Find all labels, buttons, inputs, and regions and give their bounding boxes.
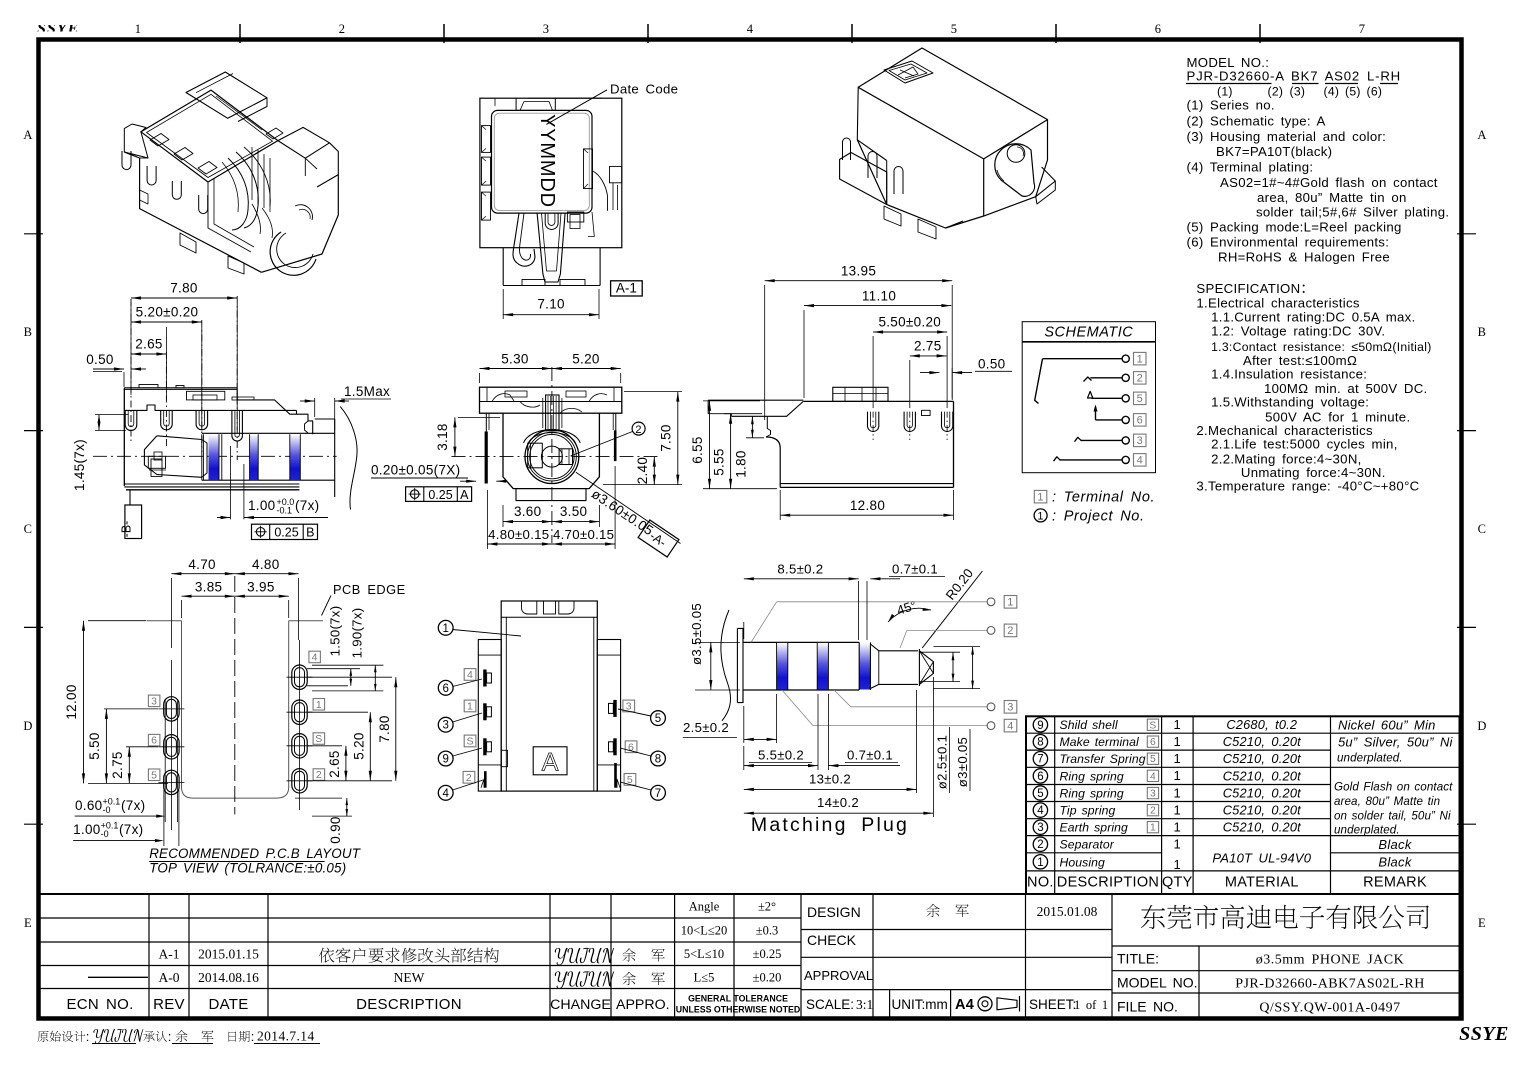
main body front <box>503 413 599 489</box>
svg-text:1.2: Voltage rating:DC 30V.: 1.2: Voltage rating:DC 30V. <box>1211 323 1385 338</box>
svg-text:6: 6 <box>1137 415 1143 427</box>
svg-text:-0: -0 <box>103 805 111 815</box>
svg-text:area, 80u” Matte tin: area, 80u” Matte tin <box>1334 795 1440 808</box>
svg-text:SSYE: SSYE <box>1459 1023 1509 1045</box>
datum B tab <box>125 505 142 539</box>
schematic box <box>1022 322 1155 473</box>
iso view top-right <box>840 48 1056 239</box>
svg-text:Matching Plug: Matching Plug <box>751 814 909 836</box>
svg-text:: Project No.: : Project No. <box>1052 508 1145 524</box>
svg-text:C5210, 0.20t: C5210, 0.20t <box>1223 734 1301 749</box>
title block: revision table <box>39 894 1460 1018</box>
dim 2.65 pcb <box>308 745 342 747</box>
svg-text:2.65: 2.65 <box>327 750 342 777</box>
svg-text:5.5±0.2: 5.5±0.2 <box>758 748 804 763</box>
dimension 2.65 <box>131 353 166 355</box>
svg-text:SCHEMATIC: SCHEMATIC <box>1044 325 1133 341</box>
dim 0.7±0.1 bottom <box>828 765 900 767</box>
svg-text:C: C <box>1478 522 1487 536</box>
company name CJK <box>1141 905 1165 929</box>
iso C base flange left <box>840 153 887 205</box>
left terminals <box>483 670 486 687</box>
frame zone ticks top <box>239 24 241 43</box>
iso C right face with keyhole <box>984 120 1048 216</box>
pin centerlines <box>130 299 132 442</box>
svg-text:area, 80u” Matte tin on: area, 80u” Matte tin on <box>1257 190 1407 205</box>
svg-text:underplated.: underplated. <box>1334 824 1400 837</box>
svg-text:13.95: 13.95 <box>841 264 876 279</box>
title block: design/check/approval <box>801 929 1112 931</box>
svg-text:1: 1 <box>1037 491 1043 503</box>
svg-text:±2°: ±2° <box>758 900 776 914</box>
svg-text:4.70±0.15: 4.70±0.15 <box>553 527 614 542</box>
svg-text:6.55: 6.55 <box>690 436 705 463</box>
svg-text:0.7±0.1: 0.7±0.1 <box>847 748 893 763</box>
svg-text:D: D <box>23 719 32 733</box>
svg-text:6: 6 <box>442 683 448 695</box>
svg-text:5.20±0.20: 5.20±0.20 <box>136 305 199 320</box>
svg-text:SPECIFICATION：: SPECIFICATION： <box>1196 281 1314 296</box>
dim 3.18 <box>458 416 500 418</box>
svg-text:S: S <box>1149 720 1156 731</box>
svg-text:7: 7 <box>1359 22 1366 36</box>
svg-text:Black: Black <box>1378 854 1412 869</box>
svg-text:13±0.2: 13±0.2 <box>809 772 851 787</box>
svg-text:2.75: 2.75 <box>914 339 941 354</box>
svg-text:B: B <box>306 526 314 540</box>
svg-text:4: 4 <box>467 669 473 681</box>
svg-text::: : <box>251 1029 255 1044</box>
dim 7.10 <box>502 289 504 319</box>
svg-text:REMARK: REMARK <box>1363 875 1427 891</box>
svg-text:ø2.5±0.1: ø2.5±0.1 <box>935 735 950 789</box>
dim 3.85/3.95 <box>181 600 183 618</box>
svg-text:3.85: 3.85 <box>195 580 222 595</box>
rear view top terminal stack <box>833 387 888 401</box>
pins (side view) <box>125 410 137 430</box>
svg-text:1.4.Insulation resistance:: 1.4.Insulation resistance: <box>1211 366 1367 381</box>
side pins front view <box>485 413 487 432</box>
dim 0.50 rear <box>951 368 953 400</box>
svg-text:B: B <box>24 325 33 339</box>
svg-text:4: 4 <box>1037 805 1044 817</box>
svg-text:(2): (2) <box>1268 85 1284 99</box>
GDT box 0.25 B <box>252 524 318 539</box>
svg-text:5.20: 5.20 <box>352 732 367 759</box>
svg-text:2: 2 <box>1150 806 1156 817</box>
plug tip <box>918 649 920 686</box>
revision description CJK <box>319 948 335 963</box>
svg-text:C5210, 0.20t: C5210, 0.20t <box>1223 768 1301 783</box>
svg-text:C2680, t0.2: C2680, t0.2 <box>1226 717 1297 732</box>
BOM table <box>1026 716 1460 894</box>
svg-text:underplated.: underplated. <box>1337 752 1403 765</box>
plug terminal circles and squares <box>987 598 995 606</box>
svg-text:4.80±0.15: 4.80±0.15 <box>488 527 549 542</box>
svg-text:1: 1 <box>1174 837 1182 852</box>
svg-text:1: 1 <box>1007 597 1013 609</box>
svg-text:(7x): (7x) <box>121 798 145 813</box>
svg-text:2: 2 <box>466 772 472 784</box>
A-1 label box <box>611 281 643 296</box>
switch contact details <box>148 456 165 468</box>
iso A extra curves <box>252 204 261 234</box>
svg-text:APPROVAL: APPROVAL <box>804 968 873 983</box>
svg-text:2015.01.15: 2015.01.15 <box>198 947 259 962</box>
svg-text:S: S <box>315 733 322 745</box>
iso A top shield plate <box>141 90 278 182</box>
svg-text:C: C <box>24 522 33 536</box>
dim 11.10 <box>803 310 805 398</box>
svg-text:A-0: A-0 <box>159 970 180 985</box>
svg-text:MATERIAL: MATERIAL <box>1225 875 1299 891</box>
svg-text:DESIGN: DESIGN <box>807 904 861 920</box>
svg-text:9: 9 <box>442 754 448 766</box>
svg-text:DATE: DATE <box>208 996 248 1013</box>
svg-text:7.10: 7.10 <box>537 297 564 312</box>
svg-text:0.25: 0.25 <box>428 488 452 502</box>
svg-text:D: D <box>1477 719 1486 733</box>
svg-text:3: 3 <box>151 696 157 708</box>
plug collar <box>737 628 743 642</box>
svg-text:Angle: Angle <box>689 900 720 914</box>
svg-text:Gold Flash on contact: Gold Flash on contact <box>1334 781 1453 794</box>
svg-text:GENERAL TOLERANCE: GENERAL TOLERANCE <box>688 994 788 1004</box>
svg-text:4: 4 <box>442 788 449 800</box>
break line (wavy) <box>340 407 357 510</box>
svg-text:Earth spring: Earth spring <box>1060 821 1129 835</box>
svg-text:S: S <box>466 736 473 748</box>
svg-text:BK7=PA10T(black): BK7=PA10T(black) <box>1216 144 1332 159</box>
iso C left face <box>857 87 886 160</box>
svg-text:14±0.2: 14±0.2 <box>817 795 859 810</box>
svg-text:A: A <box>542 749 559 777</box>
iso A latch bumps along plate lower-left edge <box>150 134 169 147</box>
svg-text:3.60: 3.60 <box>514 504 541 519</box>
svg-text:7: 7 <box>1037 754 1043 766</box>
company block <box>1112 945 1460 947</box>
dim 5.55 <box>724 413 762 415</box>
svg-text:4.70: 4.70 <box>188 557 215 572</box>
svg-text:0.7±0.1: 0.7±0.1 <box>892 562 938 577</box>
schematic legend <box>1034 490 1047 503</box>
svg-text:1: 1 <box>1174 857 1182 872</box>
svg-text:1: 1 <box>316 699 322 711</box>
iso A spring wires <box>228 158 248 230</box>
svg-text:8.5±0.2: 8.5±0.2 <box>777 562 823 577</box>
svg-text:3.50: 3.50 <box>560 504 587 519</box>
svg-text:(7x): (7x) <box>295 498 319 513</box>
plug body <box>743 641 859 643</box>
iso A right body mass <box>304 158 306 176</box>
svg-text:1: 1 <box>1174 751 1182 766</box>
footer original design line <box>37 1031 48 1042</box>
svg-text:1.1.Current rating:DC 0.5A max: 1.1.Current rating:DC 0.5A max. <box>1211 310 1415 325</box>
svg-text:2014.08.16: 2014.08.16 <box>198 970 259 985</box>
dim 2.75 <box>126 746 158 748</box>
svg-text:5.20: 5.20 <box>572 352 599 367</box>
svg-text:(7x): (7x) <box>119 822 143 837</box>
svg-text:PA10T UL-94V0: PA10T UL-94V0 <box>1212 851 1311 866</box>
small u spring <box>545 213 558 229</box>
svg-text:RECOMMENDED P.C.B LAYOUT: RECOMMENDED P.C.B LAYOUT <box>149 846 361 861</box>
dim 14±0.2 <box>932 677 934 817</box>
svg-text:Make terminal: Make terminal <box>1060 735 1140 749</box>
svg-text:Transfer Spring: Transfer Spring <box>1060 752 1146 766</box>
svg-text:3.95: 3.95 <box>247 580 274 595</box>
svg-text:5: 5 <box>1137 393 1143 405</box>
contacts inside barrel <box>528 443 543 468</box>
flange inner details <box>492 394 514 402</box>
rear pins <box>868 412 879 432</box>
svg-text:C5210, 0.20t: C5210, 0.20t <box>1223 803 1301 818</box>
dimension 5.20±0.20 <box>165 327 167 400</box>
svg-text:1.90(7x): 1.90(7x) <box>350 608 365 659</box>
svg-text:-0: -0 <box>101 829 109 839</box>
iso A cage vertical lines <box>251 147 253 200</box>
svg-text:A4: A4 <box>955 997 974 1013</box>
dim 8.5±0.2 <box>743 622 745 639</box>
svg-text::: : <box>168 1029 172 1044</box>
svg-text:0.25: 0.25 <box>274 526 298 540</box>
45 deg chamfer callout <box>922 571 982 648</box>
svg-text:ø3.5mm PHONE JACK: ø3.5mm PHONE JACK <box>1256 953 1404 968</box>
svg-text:1.5.Withstanding voltage:: 1.5.Withstanding voltage: <box>1211 395 1369 410</box>
svg-text:2: 2 <box>1137 373 1143 385</box>
svg-text:4: 4 <box>1007 720 1013 732</box>
svg-text:5.50±0.20: 5.50±0.20 <box>878 315 941 330</box>
svg-text:5: 5 <box>655 713 661 725</box>
svg-text:1: 1 <box>442 623 448 635</box>
iso C pins <box>843 138 851 160</box>
svg-text:1: 1 <box>1174 785 1182 800</box>
svg-text:NO.: NO. <box>1027 875 1054 891</box>
svg-text:9: 9 <box>1037 720 1043 732</box>
svg-text:7.50: 7.50 <box>659 424 674 451</box>
pads left column <box>164 697 179 721</box>
svg-text:2: 2 <box>1037 839 1043 851</box>
svg-text:1.5Max: 1.5Max <box>344 384 390 399</box>
svg-text:1.00: 1.00 <box>73 822 100 837</box>
svg-text:C5210, 0.20t: C5210, 0.20t <box>1223 786 1301 801</box>
frame zone ticks left/right <box>24 233 43 235</box>
svg-text:C5210, 0.20t: C5210, 0.20t <box>1223 820 1301 835</box>
svg-text:1: 1 <box>1150 823 1156 834</box>
svg-text:5: 5 <box>1150 754 1156 765</box>
svg-text:0.90: 0.90 <box>328 816 343 843</box>
svg-text:0.60: 0.60 <box>75 798 102 813</box>
svg-text:NEW: NEW <box>394 970 425 985</box>
svg-text:3: 3 <box>442 720 448 732</box>
svg-text:±0.25: ±0.25 <box>753 947 782 961</box>
dim 4.80 / 4.70 <box>486 490 488 549</box>
svg-text:-0.1: -0.1 <box>277 506 293 516</box>
top tab <box>516 98 555 110</box>
svg-text:7.80: 7.80 <box>377 715 392 742</box>
svg-text::: : <box>86 1029 90 1044</box>
iso C base feet <box>884 206 901 226</box>
svg-text:2: 2 <box>316 769 322 781</box>
svg-text:2.65: 2.65 <box>135 337 162 352</box>
svg-text:ø3±0.05: ø3±0.05 <box>955 737 970 787</box>
svg-text:(6): (6) <box>1367 85 1383 99</box>
svg-text:UNIT:mm: UNIT:mm <box>892 997 948 1012</box>
svg-text:1.3:Contact resistance: ≤50mΩ(: 1.3:Contact resistance: ≤50mΩ(Initial) <box>1211 340 1432 354</box>
dome arcs <box>524 429 581 443</box>
svg-text:5.55: 5.55 <box>712 448 727 475</box>
svg-text:C5210, 0.20t: C5210, 0.20t <box>1223 751 1301 766</box>
svg-text:1: 1 <box>467 701 473 713</box>
svg-text:Black: Black <box>1378 837 1412 852</box>
rear view body <box>803 400 953 402</box>
svg-text:Nickel 60u” Min: Nickel 60u” Min <box>1338 718 1436 733</box>
svg-text:6: 6 <box>1155 22 1162 36</box>
svg-text:Tip spring: Tip spring <box>1060 804 1116 818</box>
iso A rear block <box>186 72 267 118</box>
svg-text:TOP VIEW (TOLRANCE:±0.05): TOP VIEW (TOLRANCE:±0.05) <box>149 861 346 876</box>
svg-text:5: 5 <box>1037 788 1043 800</box>
svg-text:-B-: -B- <box>120 521 134 538</box>
svg-text:5<L≤10: 5<L≤10 <box>684 947 724 961</box>
svg-text:(4): (4) <box>1324 85 1340 99</box>
svg-text:on solder tail, 50u” Ni: on solder tail, 50u” Ni <box>1334 809 1451 822</box>
svg-text:3: 3 <box>1007 702 1013 714</box>
dimension 7.80 <box>130 303 132 395</box>
left bevel tabs <box>482 126 491 153</box>
A marking box <box>533 747 567 775</box>
dim 3.60 / 3.50 <box>502 505 504 527</box>
right compartment details <box>610 166 622 182</box>
iso A right block <box>278 127 330 158</box>
svg-text:3.18: 3.18 <box>435 423 450 450</box>
bottom legs <box>502 248 504 286</box>
schematic terminals <box>1122 355 1129 362</box>
dim 13±0.2 <box>916 690 918 793</box>
dim 12.80 <box>779 490 781 520</box>
svg-text:FILE NO.: FILE NO. <box>1117 999 1178 1015</box>
iso C front face <box>857 140 983 228</box>
dims 1.50 / 1.90 (7x) <box>307 668 360 670</box>
svg-text:YYMMDD: YYMMDD <box>536 114 558 208</box>
iso A base feet <box>180 233 196 253</box>
svg-text:8: 8 <box>1037 737 1043 749</box>
svg-text:4: 4 <box>747 22 754 36</box>
svg-text:5u” Silver, 50u” Ni: 5u” Silver, 50u” Ni <box>1338 735 1454 750</box>
svg-text:A: A <box>460 488 469 502</box>
svg-text:TITLE:: TITLE: <box>1117 951 1159 967</box>
svg-text:1.45(7x): 1.45(7x) <box>72 439 87 491</box>
dim 7.80 pcb <box>308 676 392 678</box>
svg-text:: Terminal No.: : Terminal No. <box>1052 490 1155 506</box>
svg-text:2.1.Life test:5000 cycles min,: 2.1.Life test:5000 cycles min, <box>1211 437 1398 452</box>
svg-text:(6) Environmental requirements: (6) Environmental requirements: <box>1187 235 1390 250</box>
svg-text:11.10: 11.10 <box>862 289 896 304</box>
svg-text:7.80: 7.80 <box>170 281 197 296</box>
svg-text:Q/SSY.QW-001A-0497: Q/SSY.QW-001A-0497 <box>1259 1001 1400 1016</box>
svg-text:5.50: 5.50 <box>87 732 102 759</box>
dim 6.55 <box>703 400 760 402</box>
right terminals <box>613 700 616 717</box>
svg-text:(5) Packing mode:L=Reel packin: (5) Packing mode:L=Reel packing <box>1187 220 1402 235</box>
svg-text:1: 1 <box>1174 717 1182 732</box>
svg-text:6: 6 <box>1150 737 1156 748</box>
svg-text:Separator: Separator <box>1060 838 1115 852</box>
dimension 1.00 (7x) <box>230 446 232 519</box>
center tapering leg <box>537 213 565 282</box>
svg-text:12.80: 12.80 <box>850 498 885 513</box>
foot pads <box>522 280 545 286</box>
svg-text:solder tail;5#,6# Silver plati: solder tail;5#,6# Silver plating. <box>1256 205 1449 220</box>
svg-text:(2) Schematic type: A: (2) Schematic type: A <box>1187 113 1326 128</box>
svg-text:CHECK: CHECK <box>807 932 857 948</box>
dim 2.40 <box>653 457 655 485</box>
svg-text:Ring spring: Ring spring <box>1060 787 1124 801</box>
plug neck and shaft <box>869 642 871 690</box>
bottom view central body <box>501 601 597 791</box>
svg-text:3.Temperature range: -40°C~+8: 3.Temperature range: -40°C~+80°C <box>1196 479 1419 494</box>
svg-text:1: 1 <box>1037 857 1043 869</box>
dim 7.50 <box>624 391 682 393</box>
svg-text:ECN NO.: ECN NO. <box>66 996 133 1013</box>
svg-text:4.80: 4.80 <box>252 557 279 572</box>
svg-text:±0.3: ±0.3 <box>756 924 779 938</box>
center shaft <box>546 395 559 431</box>
svg-text:PCB EDGE: PCB EDGE <box>333 582 406 597</box>
plug leader lines to terminal squares <box>751 602 777 643</box>
svg-text:1: 1 <box>135 22 142 36</box>
svg-text:2015.01.08: 2015.01.08 <box>1037 904 1098 919</box>
svg-text:1: 1 <box>1174 734 1182 749</box>
dim 5.30 / 5.20 <box>479 373 481 383</box>
left wing rear <box>708 399 803 401</box>
svg-text:2.5±0.2: 2.5±0.2 <box>683 720 729 735</box>
svg-text:3: 3 <box>1137 435 1143 447</box>
svg-text:(5): (5) <box>1345 85 1361 99</box>
dim 12.00 <box>88 620 146 622</box>
dim 5.20 pcb <box>308 711 368 713</box>
svg-text:SHEET:: SHEET: <box>1029 997 1076 1012</box>
project no 2 balloon <box>632 422 645 435</box>
svg-text:Date Code: Date Code <box>610 82 678 97</box>
svg-text:SCALE:: SCALE: <box>806 997 854 1012</box>
svg-text:E: E <box>1478 916 1486 930</box>
svg-text:2.40: 2.40 <box>635 457 650 484</box>
svg-text:10<L≤20: 10<L≤20 <box>681 924 728 938</box>
date code view outer body <box>480 98 622 248</box>
iso A front face inner lines <box>208 182 251 252</box>
pcb centerline dashed <box>234 576 236 814</box>
svg-text:6: 6 <box>1037 771 1043 783</box>
svg-text:4: 4 <box>312 652 318 664</box>
svg-text:PJR-D32660-A BK7 AS02 L-RH: PJR-D32660-A BK7 AS02 L-RH <box>1187 69 1401 84</box>
dim 5.50±0.20 <box>872 336 874 408</box>
svg-text:1: 1 <box>1174 802 1182 817</box>
centerlines front view <box>551 367 553 543</box>
svg-text:1.Electrical characteristics: 1.Electrical characteristics <box>1196 295 1359 310</box>
svg-text:2: 2 <box>1007 625 1013 637</box>
iso view top-left <box>122 72 338 275</box>
dim 13.95 <box>764 285 766 420</box>
svg-text:1.00: 1.00 <box>248 498 275 513</box>
svg-text:4: 4 <box>1150 771 1156 782</box>
small step on central wall <box>501 750 507 766</box>
inner cone contact <box>144 436 158 475</box>
dims phi2.5 phi3 <box>919 651 960 653</box>
svg-text:Ring spring: Ring spring <box>1060 769 1124 783</box>
dim 0.90 <box>346 798 348 816</box>
dim 4.70/4.80 <box>170 578 172 648</box>
dimension 1.5Max <box>314 398 316 417</box>
